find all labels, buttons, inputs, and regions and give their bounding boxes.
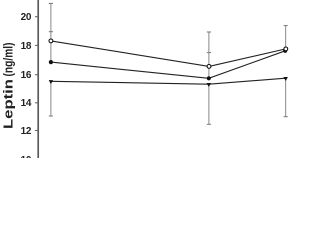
y-axis tick 14	[35, 102, 38, 104]
error bar upper, left cluster	[50, 3, 52, 62]
error cap left bottom	[49, 115, 53, 117]
svg-text:16: 16	[21, 70, 32, 81]
svg-text:18: 18	[21, 41, 32, 52]
marker: open circle middle	[207, 65, 211, 69]
error bar upper, right cluster	[285, 26, 287, 51]
error cap middle mid (filled circle)	[207, 52, 211, 54]
svg-text:14: 14	[21, 98, 32, 109]
error bar lower, middle cluster (triangle)	[208, 85, 210, 124]
error cap middle top (open circle)	[207, 31, 211, 33]
error cap middle bottom	[207, 123, 211, 125]
series line: open circle series	[51, 41, 286, 67]
svg-text:20: 20	[21, 12, 32, 23]
y-axis line	[37, 0, 39, 158]
error cap left mid (filled circle)	[49, 31, 53, 33]
y-axis tick 12	[35, 130, 38, 132]
marker: open circle right	[284, 47, 288, 51]
error bar upper, middle cluster	[208, 32, 210, 78]
svg-text:(ng/ml): (ng/ml)	[1, 43, 16, 77]
marker: filled triangle-down middle	[207, 83, 211, 87]
y-axis tick 18	[35, 44, 38, 46]
error bar lower, left cluster (triangle)	[50, 82, 52, 116]
marker: filled circle middle	[207, 76, 211, 80]
svg-text:Leptin: Leptin	[1, 79, 16, 129]
series line: triangle series	[51, 78, 286, 84]
marker: filled circle left	[49, 60, 53, 64]
series line: filled circle series	[51, 51, 285, 79]
error cap right bottom	[284, 116, 288, 118]
y-axis tick 20	[35, 16, 38, 18]
marker: filled circle right	[283, 49, 287, 53]
marker: filled triangle-down left	[49, 80, 53, 84]
marker: filled triangle-down right	[284, 77, 288, 81]
svg-text:10: 10	[21, 155, 32, 158]
marker: open circle left	[49, 39, 53, 43]
error cap left top (open circle)	[49, 2, 53, 4]
svg-text:12: 12	[21, 126, 32, 137]
y-axis tick 16	[35, 74, 38, 76]
error bar lower, right cluster (triangle)	[285, 80, 287, 117]
error cap right top	[284, 25, 288, 27]
